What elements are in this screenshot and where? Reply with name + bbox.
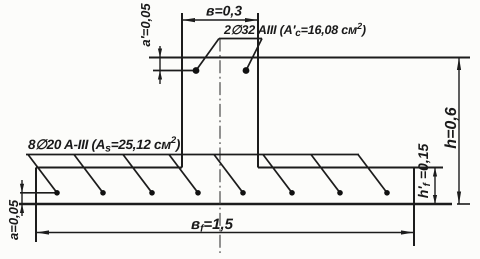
wire leader diagonal top right bbox=[246, 39, 262, 71]
wire bottom label underline leader bbox=[26, 154, 359, 156]
wire flange left edge bbox=[35, 168, 37, 243]
wire leader diagonal 3 bbox=[123, 155, 152, 193]
svg-text:вf=1,5: вf=1,5 bbox=[191, 216, 234, 235]
wire web right edge bbox=[257, 13, 259, 168]
wire flange bottom bbox=[19, 203, 452, 205]
dimension bf=1,5 bottom bbox=[36, 230, 414, 234]
svg-text:a′=0,05: a′=0,05 bbox=[138, 3, 153, 47]
wire web left edge bbox=[181, 13, 183, 168]
wire flange top right bbox=[258, 167, 443, 169]
dimension h=0,6 right bbox=[457, 58, 461, 205]
dimension h'f=0,15 right bbox=[433, 168, 437, 205]
wire leader diagonal top left bbox=[196, 39, 219, 71]
svg-text:h=0,6: h=0,6 bbox=[443, 107, 460, 148]
rebar dots top (2d32) bbox=[193, 67, 250, 74]
wire leader diagonal 5 bbox=[214, 155, 243, 193]
wire flange top left bbox=[36, 167, 182, 169]
dimension b=0,3 top bbox=[182, 18, 258, 22]
wire leader diagonal 4 bbox=[169, 155, 198, 193]
node centerline bbox=[219, 39, 221, 254]
wire leader diagonal 2 bbox=[74, 155, 103, 193]
svg-text:2∅32 AIII (A′c=16,08 см2): 2∅32 AIII (A′c=16,08 см2) bbox=[223, 21, 366, 39]
wire leader diagonal 7 bbox=[311, 155, 340, 193]
wire leader horizontal top bbox=[219, 38, 262, 40]
svg-text:a=0,05: a=0,05 bbox=[6, 199, 21, 240]
wire top rebar level extension bbox=[153, 70, 196, 72]
wire bottom rebar level extension bbox=[20, 192, 57, 194]
dimension a't=0,05 top left bbox=[158, 46, 162, 84]
dimension a=0,05 bottom left bbox=[20, 180, 24, 216]
wire leader diagonal 1 bbox=[28, 155, 57, 193]
wire leader diagonal 8 bbox=[358, 155, 387, 193]
svg-text:h′f =0,15: h′f =0,15 bbox=[415, 144, 433, 199]
wire leader diagonal 6 bbox=[263, 155, 292, 193]
svg-text:8∅20 A-III (As=25,12 см2): 8∅20 A-III (As=25,12 см2) bbox=[28, 135, 181, 155]
wire flange right edge bbox=[413, 168, 415, 247]
wire top horizontal line (web top + extension lines) bbox=[149, 57, 470, 59]
svg-text:в=0,3: в=0,3 bbox=[206, 3, 242, 19]
rebar dots bottom (8d20) bbox=[54, 190, 390, 196]
